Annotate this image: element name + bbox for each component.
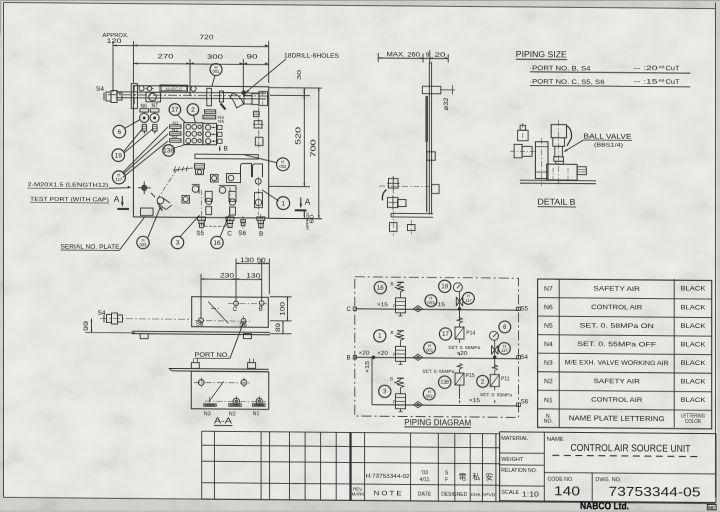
svg-text:PIPING DIAGRAM: PIPING DIAGRAM — [404, 418, 471, 428]
drain valve with lever — [151, 193, 172, 210]
svg-text:A: A — [114, 194, 120, 204]
svg-text:S6: S6 — [521, 398, 529, 405]
leaders H117 — [123, 127, 169, 178]
svg-text:002: 002 — [426, 394, 434, 399]
svg-text:F: F — [393, 352, 396, 357]
mid bracket — [207, 88, 212, 106]
svg-text:DESIGNED: DESIGNED — [441, 492, 467, 498]
svg-text:S4: S4 — [98, 310, 106, 317]
balloon 16 — [211, 236, 223, 249]
plate holes S5 S6 — [195, 315, 250, 328]
svg-text:19: 19 — [441, 284, 448, 290]
leader 2 — [194, 115, 196, 122]
svg-text:S4: S4 — [96, 86, 104, 93]
svg-text:CONTROL AIR SOURCE UNIT: CONTROL AIR SOURCE UNIT — [571, 443, 692, 455]
NABCO name plate — [160, 85, 188, 92]
svg-text:SCALE: SCALE — [501, 490, 519, 496]
label 18DRILL-6HOLES — [242, 53, 339, 95]
regulator with vent cap — [195, 164, 205, 175]
right column fitting — [253, 121, 264, 128]
plate crosshair mark — [211, 308, 219, 310]
piping size heading — [516, 50, 567, 59]
main view body outline — [133, 86, 268, 218]
centerline diagonal — [157, 169, 178, 200]
svg-text:117: 117 — [116, 177, 123, 182]
name plate lettering table — [538, 278, 712, 429]
svg-text:AB: AB — [659, 79, 666, 83]
svg-text:4/11: 4/11 — [419, 477, 429, 483]
svg-text:-- :20: -- :20 — [634, 65, 658, 72]
svg-text:NAME PLATE LETTERING: NAME PLATE LETTERING — [569, 413, 665, 423]
svg-text:B: B — [224, 146, 228, 153]
A-A holes bottom row — [205, 396, 266, 407]
right column centerline — [258, 107, 260, 150]
svg-text:230: 230 — [220, 274, 235, 280]
upper fitting sq — [211, 175, 219, 183]
svg-text:16: 16 — [213, 240, 221, 247]
svg-text:6: 6 — [117, 129, 121, 136]
manifold right section — [203, 123, 217, 144]
svg-text:BLACK: BLACK — [680, 304, 706, 311]
svg-text:C: C — [233, 306, 238, 313]
A-A holes top row — [194, 377, 250, 388]
dim 99 — [84, 318, 135, 332]
balloon 3 — [379, 385, 391, 397]
svg-text:SET. 0. 55MPa: SET. 0. 55MPa — [448, 345, 480, 350]
svg-text:50: 50 — [257, 258, 267, 264]
tick chain — [173, 166, 193, 171]
flange bolt left — [139, 86, 144, 91]
svg-text:100: 100 — [280, 301, 286, 316]
svg-text:CHK.: CHK. — [471, 492, 482, 498]
dims 270 300 90 — [133, 53, 268, 97]
svg-text:B: B — [259, 305, 263, 312]
svg-text:S5: S5 — [520, 305, 528, 312]
leader H003 — [148, 208, 161, 239]
svg-text:003: 003 — [140, 242, 148, 247]
check valve line2 — [414, 354, 423, 360]
table row N5 — [544, 321, 706, 331]
scan edge artifacts — [0, 0, 720, 2]
svg-text:BLACK: BLACK — [680, 286, 706, 293]
reducing valve P11 — [480, 357, 512, 404]
svg-text:1: 1 — [281, 200, 285, 207]
pipe rail — [108, 92, 269, 99]
table row N1 — [544, 396, 706, 406]
A-A top plate — [169, 358, 269, 372]
pointer arrow — [159, 206, 163, 211]
port labels — [196, 230, 263, 238]
svg-text:N3: N3 — [544, 360, 553, 367]
gauge N6 — [140, 103, 149, 122]
svg-text:MATERIAL: MATERIAL — [501, 436, 528, 442]
A-A pads — [204, 403, 265, 406]
regulator line3 — [390, 377, 406, 412]
name plates N4 N5 — [203, 110, 225, 124]
motor symbol — [146, 86, 154, 90]
dim 130 50 — [236, 258, 269, 300]
svg-text:AB: AB — [659, 65, 666, 69]
svg-text:SAFETY AIR: SAFETY AIR — [593, 378, 640, 385]
gauge line2 — [490, 331, 499, 340]
balloon 19 — [439, 280, 451, 292]
svg-text:S4: S4 — [520, 354, 528, 361]
svg-text:N5: N5 — [218, 119, 224, 124]
svg-text:001: 001 — [426, 347, 434, 352]
svg-text:-- :15: -- :15 — [634, 79, 658, 86]
svg-text:S6: S6 — [239, 321, 247, 328]
svg-text:COLOR: COLOR — [685, 419, 701, 425]
svg-text:73753344-05: 73753344-05 — [609, 485, 701, 500]
title text — [552, 443, 701, 457]
svg-text:9: 9 — [426, 52, 430, 59]
svg-text:N7: N7 — [544, 286, 553, 293]
svg-text:140: 140 — [554, 484, 580, 498]
svg-text:F: F — [445, 477, 448, 483]
svg-text:MARK: MARK — [352, 491, 365, 496]
svg-text:30: 30 — [297, 70, 303, 80]
svg-text:NABCO: NABCO — [166, 86, 184, 91]
svg-text:B: B — [347, 354, 351, 361]
dims 100 89 right — [270, 297, 292, 334]
svg-text:NO.: NO. — [544, 419, 553, 425]
side view wall plate — [425, 96, 428, 212]
gauge N7 — [150, 103, 159, 122]
leader 16 — [220, 215, 229, 237]
right column muffler — [254, 111, 260, 116]
svg-text:SET. 0. 58MPa ON: SET. 0. 58MPa ON — [580, 322, 655, 330]
svg-text:SET. 0. 55MPa: SET. 0. 55MPa — [422, 369, 454, 374]
svg-text:17: 17 — [171, 107, 179, 114]
flow line to S6 — [365, 357, 529, 406]
right elbow pair — [241, 163, 263, 177]
balloon H/117 — [463, 292, 475, 304]
svg-text:SAFETY AIR: SAFETY AIR — [593, 285, 640, 292]
shutoff valve line1 — [456, 291, 462, 309]
piping diagram boundary — [355, 277, 519, 418]
svg-text:3: 3 — [176, 240, 180, 247]
balloon 6 — [499, 321, 511, 333]
balloon 17 — [439, 328, 451, 340]
svg-text:BLACK: BLACK — [680, 378, 706, 385]
small valve fitting — [182, 195, 190, 203]
piping size row 1 — [530, 64, 691, 74]
leader H001 — [212, 75, 215, 86]
label port no — [195, 323, 244, 359]
svg-text:117: 117 — [501, 348, 508, 353]
svg-text:300: 300 — [207, 54, 224, 61]
S4 stub side — [98, 310, 193, 325]
svg-text:PORT NO.: PORT NO. — [195, 352, 230, 359]
svg-text:N3: N3 — [204, 411, 211, 417]
svg-text:720: 720 — [200, 34, 214, 41]
svg-text:×20: ×20 — [359, 351, 370, 357]
svg-text:B: B — [391, 330, 394, 335]
svg-text:C: C — [347, 306, 352, 313]
right column cylinder — [255, 137, 263, 145]
muffler under N6 — [142, 125, 146, 135]
svg-text:私: 私 — [472, 473, 480, 482]
upper tee — [227, 173, 241, 182]
dim 720 — [133, 34, 268, 85]
svg-text:BLACK: BLACK — [680, 360, 706, 367]
svg-text:N4: N4 — [544, 341, 553, 348]
svg-text:×20: ×20 — [457, 351, 468, 357]
regulator line1 — [377, 281, 406, 315]
svg-text:CuT: CuT — [666, 65, 680, 72]
plate view outline — [192, 297, 269, 328]
detail B left elbow stack — [510, 123, 537, 158]
check valve line1 — [414, 306, 423, 312]
svg-text:S6: S6 — [238, 230, 246, 237]
reducing valve P15 — [422, 363, 475, 404]
detail B actuator — [551, 125, 571, 147]
balloon H/117 — [499, 342, 511, 354]
table row N2 — [544, 377, 706, 387]
svg-text:PIPING SIZE: PIPING SIZE — [516, 50, 567, 59]
table row N7 — [544, 284, 706, 294]
svg-text:20: 20 — [435, 52, 447, 59]
svg-text:270: 270 — [158, 54, 175, 61]
svg-text:M/E EXH. VALVE WORKING AIR: M/E EXH. VALVE WORKING AIR — [565, 359, 669, 367]
detail B left cylinder — [535, 142, 548, 179]
svg-text:DWG. NO.: DWG. NO. — [595, 477, 621, 483]
regulator line2 — [359, 330, 406, 365]
svg-text:138: 138 — [163, 148, 174, 155]
svg-text:F: F — [393, 399, 396, 404]
svg-text:1:10: 1:10 — [522, 492, 539, 499]
svg-text:CONTROL AIR: CONTROL AIR — [591, 304, 642, 311]
balloon 16 — [374, 281, 386, 293]
right side dims 30 520 700 — [269, 70, 322, 230]
leader 138 — [174, 143, 190, 148]
leader 17 — [178, 115, 186, 123]
side view pipe vertical — [429, 62, 431, 215]
title block frame — [500, 432, 716, 503]
svg-text:130: 130 — [240, 258, 255, 264]
junction line2 — [493, 356, 496, 359]
label detail B — [538, 198, 577, 207]
svg-text:003: 003 — [427, 300, 435, 305]
svg-text:N1: N1 — [544, 397, 553, 404]
angled pipe to elbow — [220, 91, 244, 110]
revision table grid — [202, 431, 500, 501]
balloon H/001 — [424, 342, 436, 354]
A-A labels N3 N2 N1 — [204, 411, 260, 418]
dim approx 120 — [103, 33, 134, 92]
table header row — [544, 412, 705, 426]
svg-text:A: A — [305, 197, 311, 207]
svg-text:(BBS1/4): (BBS1/4) — [594, 142, 623, 148]
svg-text:2: 2 — [191, 107, 195, 114]
svg-text:P11: P11 — [501, 376, 510, 382]
svg-text:BLACK: BLACK — [680, 323, 706, 330]
pump block — [146, 92, 161, 102]
balloon H/117 — [112, 171, 125, 184]
svg-text:520: 520 — [296, 127, 303, 145]
section arrow B — [219, 145, 228, 152]
balloon H/003 — [137, 236, 149, 249]
svg-text:CONTROL AIR: CONTROL AIR — [591, 397, 642, 404]
plate holes C B — [228, 298, 267, 313]
A-A view outline — [191, 371, 269, 409]
svg-text:F: F — [393, 303, 396, 308]
manifold valve block — [184, 123, 203, 145]
svg-text:×15: ×15 — [365, 361, 371, 373]
svg-text:89: 89 — [276, 322, 282, 332]
svg-text:×15: ×15 — [469, 398, 480, 404]
section A left — [114, 194, 129, 209]
detail B manifold block — [547, 164, 577, 180]
side view left fittings — [379, 176, 429, 209]
cross fitting — [138, 181, 151, 194]
leader 1 — [262, 190, 279, 201]
A-A diagonal — [209, 381, 224, 401]
revision header row — [352, 486, 497, 498]
svg-text:138: 138 — [441, 380, 450, 386]
svg-text:18DRILL-6HOLES: 18DRILL-6HOLES — [284, 54, 339, 60]
label test port — [28, 182, 132, 203]
svg-text:RELATION NO.: RELATION NO. — [501, 468, 537, 474]
svg-text:16: 16 — [377, 286, 384, 292]
balloon 1 — [374, 330, 386, 342]
leader H002 — [244, 155, 277, 163]
svg-text:A-A: A-A — [214, 416, 233, 425]
detail B centerline marks — [542, 120, 559, 186]
svg-text:P14: P14 — [466, 330, 475, 336]
label serial no plate — [61, 216, 145, 251]
flow line B to S4 — [347, 352, 529, 362]
balloon 3 — [171, 236, 183, 249]
detail B base rail — [520, 180, 596, 184]
svg-text:N2: N2 — [544, 378, 553, 385]
table row N4 — [544, 340, 706, 350]
mc mark — [707, 504, 716, 509]
gauge line1 — [453, 283, 462, 292]
reducing valve P14 — [448, 309, 480, 357]
svg-text:×20: ×20 — [377, 351, 388, 357]
lower mounting plate — [195, 154, 258, 159]
serial no plate — [141, 208, 154, 216]
svg-text:電: 電 — [459, 472, 467, 481]
manifold N1 N2 N3 labels — [172, 120, 179, 139]
svg-text:S5: S5 — [196, 230, 204, 237]
flow line C to S5 — [347, 304, 529, 314]
side view mid clamp — [427, 152, 435, 160]
svg-text:CuT: CuT — [666, 79, 680, 86]
svg-text:ø32: ø32 — [443, 97, 450, 111]
svg-text:S5: S5 — [196, 321, 204, 328]
svg-text:BLACK: BLACK — [680, 397, 706, 404]
label piping diagram — [404, 418, 471, 428]
tee assembly 2 — [219, 186, 236, 215]
manifold outlet stubs — [218, 125, 223, 143]
svg-text:N O T E: N O T E — [374, 491, 402, 497]
balloon H/002 — [423, 388, 435, 400]
detail B ball valve stem — [553, 138, 565, 165]
svg-text:×15: ×15 — [377, 302, 388, 308]
label A-A — [214, 416, 233, 425]
svg-text:NAME: NAME — [547, 437, 564, 443]
svg-text:60: 60 — [309, 214, 315, 223]
balloon H/002 — [277, 158, 290, 171]
balloon 6 — [113, 125, 126, 138]
side view dim MAX.260 9 20 — [378, 50, 448, 65]
section A right — [295, 196, 311, 210]
svg-text:19: 19 — [115, 152, 123, 159]
leaders 19 — [124, 128, 154, 153]
svg-text:120: 120 — [107, 39, 123, 45]
revision entry row — [366, 470, 494, 484]
svg-text:130: 130 — [246, 273, 261, 279]
svg-text:N6: N6 — [544, 304, 553, 311]
svg-text:DATE: DATE — [418, 492, 432, 498]
left bracket plate — [131, 83, 137, 108]
svg-text:BLACK: BLACK — [680, 341, 706, 348]
mounting plate side — [132, 331, 270, 340]
svg-text:’03: ’03 — [421, 470, 428, 476]
svg-text:P15: P15 — [466, 373, 475, 379]
svg-text:17: 17 — [442, 332, 449, 338]
svg-text:C: C — [227, 230, 232, 237]
leader 6 — [124, 119, 140, 128]
manifold muffler plates — [170, 125, 181, 142]
svg-text:N5: N5 — [544, 323, 553, 330]
svg-text:117: 117 — [465, 298, 472, 303]
flange bolt right — [191, 86, 196, 91]
shutoff valve line2 — [492, 340, 498, 358]
title block labels — [501, 436, 622, 500]
bottom ports — [198, 187, 265, 230]
svg-text:B: B — [259, 231, 263, 238]
svg-text:DETAIL B: DETAIL B — [538, 198, 576, 207]
svg-text:BALL VALVE: BALL VALVE — [584, 131, 632, 140]
label ball valve — [564, 131, 633, 152]
leader 3 — [180, 215, 200, 237]
svg-text:APVD.: APVD. — [482, 492, 496, 498]
muffler under N7 — [153, 125, 157, 135]
balloon H/003 — [425, 295, 437, 307]
svg-text:B: B — [391, 281, 394, 286]
balloon 2 — [187, 104, 199, 116]
svg-text:001: 001 — [213, 69, 221, 74]
side view top flange — [422, 85, 455, 111]
table row N3 — [544, 359, 706, 369]
balloon 19 — [112, 149, 125, 162]
svg-text:B: B — [390, 377, 393, 382]
right vertical pipe valve — [255, 177, 263, 215]
table row N6 — [544, 303, 706, 313]
side view anchor bolts — [390, 176, 416, 236]
balloon 138 — [163, 145, 175, 157]
svg-text:安: 安 — [485, 472, 493, 482]
balloon H/001 — [210, 63, 222, 75]
svg-text:700: 700 — [310, 139, 317, 157]
svg-text:002: 002 — [279, 164, 287, 169]
dim 230 130 — [201, 273, 262, 317]
svg-text:·PORT NO. B, S4: ·PORT NO. B, S4 — [530, 65, 591, 73]
check valve line3 — [414, 401, 423, 407]
elbow assembly 1 — [192, 184, 212, 214]
svg-text:H:73753344-02: H:73753344-02 — [366, 474, 410, 480]
balloon 1 — [277, 197, 290, 210]
detail B right fitting — [577, 167, 586, 175]
svg-text:MAX. 260: MAX. 260 — [387, 52, 421, 59]
svg-text:90: 90 — [246, 54, 258, 61]
svg-text:WEIGHT: WEIGHT — [501, 457, 524, 463]
side view foot — [391, 213, 433, 217]
svg-text:N1: N1 — [253, 411, 260, 417]
